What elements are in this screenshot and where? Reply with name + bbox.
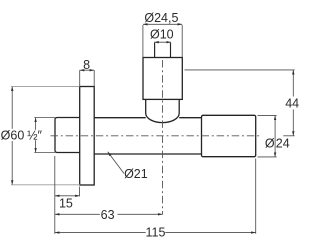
dim line 115 (55, 232, 146, 234)
left reference extension line (54, 156, 56, 234)
valve head (143, 58, 182, 100)
wall stub (1/2 inch thread) (55, 118, 80, 153)
centerline vertical (162, 60, 164, 214)
dim line 63 (55, 213, 100, 215)
dim line 44 (292, 70, 294, 97)
svg-text:Ø10: Ø10 (150, 28, 174, 42)
svg-text:24: 24 (276, 136, 290, 150)
pipe body top edge (94, 117, 201, 119)
svg-text:½″: ½″ (27, 128, 42, 142)
leader Ø21 (108, 152, 124, 174)
dim Ø60 extension lines (11, 86, 80, 184)
dim 44 bottom extension line (283, 135, 294, 137)
dim 44 top extension line (185, 69, 295, 71)
svg-text:Ø60: Ø60 (1, 128, 25, 142)
outlet cylinder (202, 115, 256, 156)
valve skirt dome (146, 99, 180, 122)
dim 15 right extension line (79, 187, 81, 197)
valve stem (155, 43, 171, 58)
wall flange rosette (80, 87, 95, 186)
dim line 1/2 inch (35, 118, 37, 130)
svg-text:8: 8 (83, 58, 90, 72)
dim line Ø24 (274, 116, 276, 158)
dim Ø24 extension lines (258, 115, 277, 156)
svg-text:115: 115 (146, 225, 166, 239)
dim line Ø10 (154, 41, 171, 43)
svg-text:Ø24,5: Ø24,5 (144, 11, 178, 25)
svg-text:15: 15 (59, 197, 73, 211)
dim line Ø60 (11, 86, 13, 128)
pipe body bottom edge (94, 153, 201, 155)
svg-text:Ø: Ø (265, 136, 275, 150)
svg-text:63: 63 (101, 208, 115, 222)
svg-text:44: 44 (285, 97, 299, 111)
dim 8 extension lines (80, 70, 95, 86)
svg-text:Ø21: Ø21 (124, 167, 148, 181)
centerline horizontal (51, 135, 262, 137)
dim line 8 (80, 69, 95, 71)
right reference extension line (255, 159, 257, 234)
dim line Ø24,5 (143, 23, 182, 25)
dim Ø24,5 extension lines (143, 25, 182, 58)
dim line 15 (55, 195, 80, 197)
dim 1/2 extension lines (34, 118, 55, 153)
